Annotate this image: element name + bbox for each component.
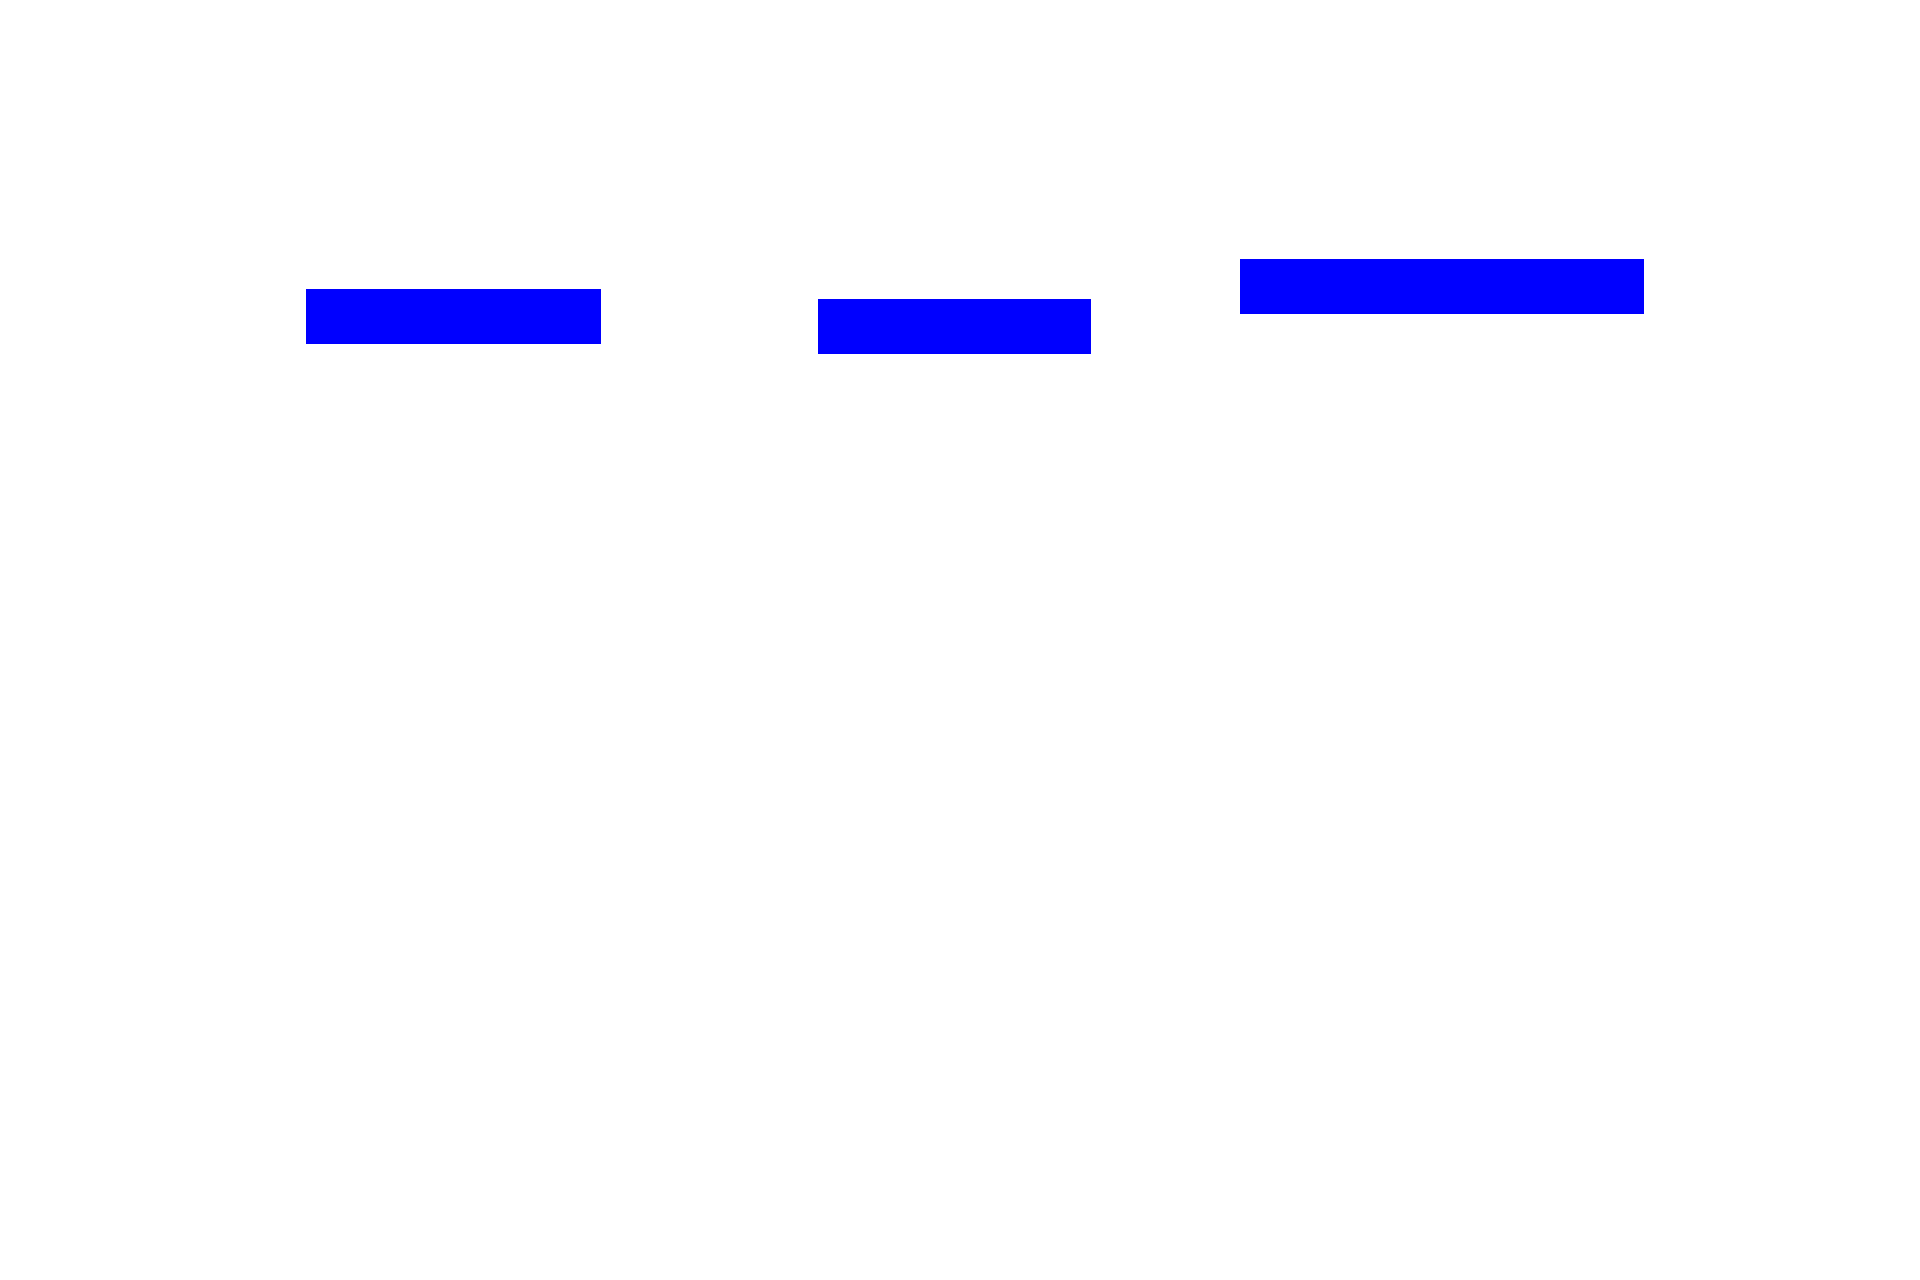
blue rectangle 1 (left) <box>306 289 601 344</box>
blue rectangle 3 (right) <box>1240 259 1644 314</box>
blue rectangle 2 (middle) <box>818 299 1091 354</box>
